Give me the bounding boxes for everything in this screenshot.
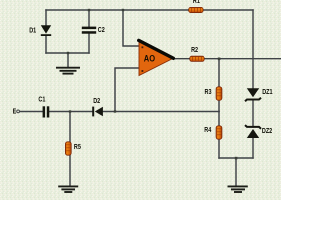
wire D2 to R3/R4 node	[103, 111, 219, 113]
node top op-amp input junction	[122, 9, 124, 11]
label R3	[205, 88, 212, 96]
wire op-amp output to R2	[172, 58, 190, 60]
wire op-amp - input riser	[115, 68, 139, 112]
svg-text:E: E	[13, 108, 17, 116]
ground (R5, bottom left)	[58, 186, 78, 192]
wire R2 to right edge y=59	[204, 58, 281, 60]
wire ground stub under node	[67, 53, 69, 67]
wire R4 column	[218, 112, 220, 159]
resistor R2	[190, 56, 204, 61]
resistor R1	[189, 7, 203, 12]
capacitor C2	[82, 27, 96, 34]
capacitor C1	[43, 106, 50, 117]
svg-text:AO: AO	[144, 53, 156, 64]
resistor R4	[216, 126, 222, 139]
wire right column x=253 (R1 net down to DZ1)	[252, 10, 254, 88]
wire C1 to D2	[49, 111, 92, 113]
zener DZ1	[245, 88, 261, 101]
svg-text:DZ1: DZ1	[262, 88, 273, 96]
svg-text:C2: C2	[98, 26, 105, 34]
svg-text:R4: R4	[204, 126, 211, 134]
node D2/op-amp input junction	[114, 110, 116, 112]
svg-text:R5: R5	[74, 143, 81, 151]
label R1	[193, 0, 200, 5]
wire R3 column	[218, 59, 220, 112]
resistor R3	[216, 87, 222, 100]
wire op-amp + input from top net	[123, 10, 139, 46]
wire D1 column	[45, 10, 47, 53]
resistor R5	[65, 142, 71, 155]
label R4	[204, 126, 211, 134]
node top C2 junction	[88, 9, 90, 11]
svg-text:D1: D1	[29, 27, 36, 35]
node ground junction bottom right	[235, 157, 238, 160]
op-amp U1 AO	[139, 40, 174, 75]
wire DZ2 to bottom corner	[252, 138, 254, 158]
svg-text:D2: D2	[93, 97, 100, 105]
label C2	[98, 26, 105, 34]
svg-text:DZ2: DZ2	[262, 127, 273, 135]
label DZ2	[262, 127, 273, 135]
diode D2	[92, 107, 103, 117]
label E	[13, 108, 17, 116]
label C1	[38, 96, 45, 104]
diode D1	[41, 25, 51, 36]
pin - mark	[142, 70, 144, 72]
wire R5 column	[69, 112, 71, 186]
wire bottom-right bar y=158	[219, 157, 253, 159]
wire D1-C2 bottom bar y=53	[46, 52, 89, 54]
label DZ1	[262, 88, 273, 96]
label D1	[29, 27, 36, 35]
wire E to C1	[20, 111, 43, 113]
ground (D1/C2 net)	[56, 68, 80, 74]
wire top net y=10 from D1 corner to right corner	[46, 9, 253, 11]
node D1/C2 ground junction	[67, 52, 69, 54]
label R5	[74, 143, 81, 151]
node E input terminal	[17, 110, 20, 113]
svg-text:R1: R1	[193, 0, 200, 5]
ground (bottom right)	[228, 186, 248, 192]
node output/R3 junction	[218, 58, 221, 61]
svg-text:C1: C1	[38, 96, 45, 104]
svg-text:R3: R3	[205, 88, 212, 96]
wire ground stub bottom right	[235, 158, 237, 185]
wire DZ1 to DZ2	[252, 100, 254, 127]
wire C2 column	[88, 10, 90, 53]
zener DZ2	[245, 125, 261, 138]
node junction dots	[67, 9, 238, 160]
node C1/R5 junction	[69, 110, 71, 112]
label D2	[93, 97, 100, 105]
svg-text:R2: R2	[191, 46, 198, 54]
pin + mark	[142, 46, 144, 48]
label R2	[191, 46, 198, 54]
